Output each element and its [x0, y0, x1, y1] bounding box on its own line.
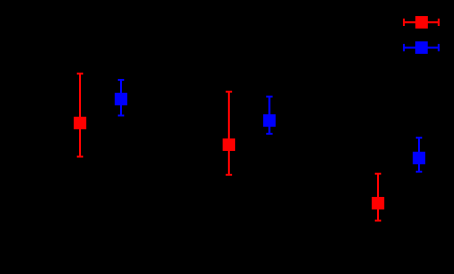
errorbar blue group3	[413, 138, 426, 172]
errorbar red group2	[223, 92, 236, 175]
errorbar blue group1	[115, 80, 128, 116]
errorbar blue group2	[263, 97, 276, 134]
errorbar red group3	[372, 174, 385, 221]
legend red entry	[404, 16, 439, 29]
errorbar red group1	[74, 74, 87, 157]
legend blue entry	[404, 41, 439, 54]
